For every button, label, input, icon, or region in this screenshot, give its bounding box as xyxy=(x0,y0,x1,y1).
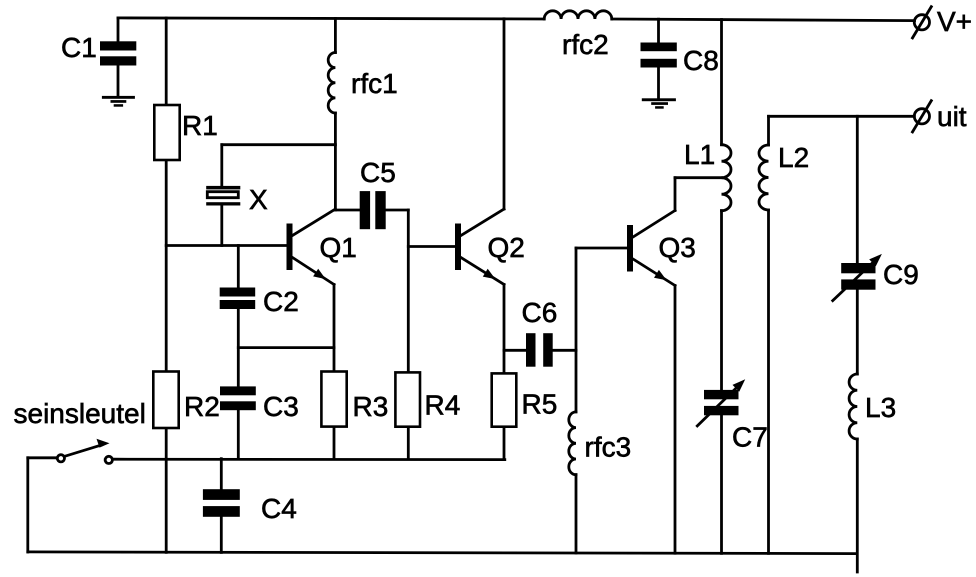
svg-text:C2: C2 xyxy=(263,286,299,317)
svg-text:R4: R4 xyxy=(425,390,461,421)
svg-text:L1: L1 xyxy=(684,139,715,170)
svg-text:C3: C3 xyxy=(263,391,299,422)
svg-text:seinsleutel: seinsleutel xyxy=(14,398,146,429)
svg-text:Q2: Q2 xyxy=(488,232,525,263)
svg-text:R1: R1 xyxy=(182,110,218,141)
svg-text:C4: C4 xyxy=(261,493,297,524)
svg-text:C7: C7 xyxy=(732,422,768,453)
svg-text:C5: C5 xyxy=(360,157,396,188)
svg-text:C1: C1 xyxy=(61,32,97,63)
svg-text:V+: V+ xyxy=(937,6,972,37)
svg-text:rfc3: rfc3 xyxy=(585,432,632,463)
svg-text:Q1: Q1 xyxy=(320,232,357,263)
svg-text:uit: uit xyxy=(937,101,967,132)
svg-text:R3: R3 xyxy=(353,391,389,422)
svg-text:C9: C9 xyxy=(883,259,919,290)
svg-text:Q3: Q3 xyxy=(659,232,696,263)
svg-text:R5: R5 xyxy=(522,389,558,420)
svg-text:R2: R2 xyxy=(184,391,220,422)
svg-text:L2: L2 xyxy=(778,142,809,173)
svg-text:rfc1: rfc1 xyxy=(351,68,398,99)
svg-text:rfc2: rfc2 xyxy=(562,29,609,60)
svg-text:X: X xyxy=(249,184,268,215)
svg-text:L3: L3 xyxy=(865,392,896,423)
svg-text:C8: C8 xyxy=(683,45,719,76)
svg-text:C6: C6 xyxy=(522,297,558,328)
